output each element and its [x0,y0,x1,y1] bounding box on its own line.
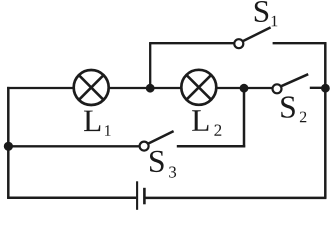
junction dot at top branch [146,84,155,93]
wire S3 fixed side [177,145,245,148]
switch S1 blade [243,27,271,41]
battery short plate [143,188,146,205]
junction dot at left vertical [4,142,13,151]
lamp L2 [181,70,216,105]
label S2 [281,96,306,122]
wire top branch horizontal to S1 [149,42,234,44]
junction dot at right vertical [321,84,330,93]
wire top branch vertical [149,43,151,88]
wire bottom left (to battery) [7,196,136,199]
battery long plate [136,181,138,210]
switch S3 pivot [140,142,149,151]
label L1 [84,111,111,136]
label S1 [255,1,277,26]
wire S3 branch left [8,145,139,147]
wire vertical junction to S3 branch [243,88,246,147]
junction dot at S3 riser [240,84,249,93]
lamp L1 [74,70,109,105]
label L2 [192,110,221,136]
wire left vertical [7,87,10,199]
wire S1 fixed side [273,42,327,44]
switch S1 pivot [234,39,243,48]
switch S2 blade [281,74,308,86]
wire bottom right (from battery) [145,197,326,200]
switch S2 pivot [273,84,282,93]
wire S2 fixed side [310,87,326,89]
wire right vertical [324,42,327,198]
label S3 [150,151,176,178]
wire main horizontal (top of loop) [7,87,272,89]
switch S3 blade [148,131,173,143]
